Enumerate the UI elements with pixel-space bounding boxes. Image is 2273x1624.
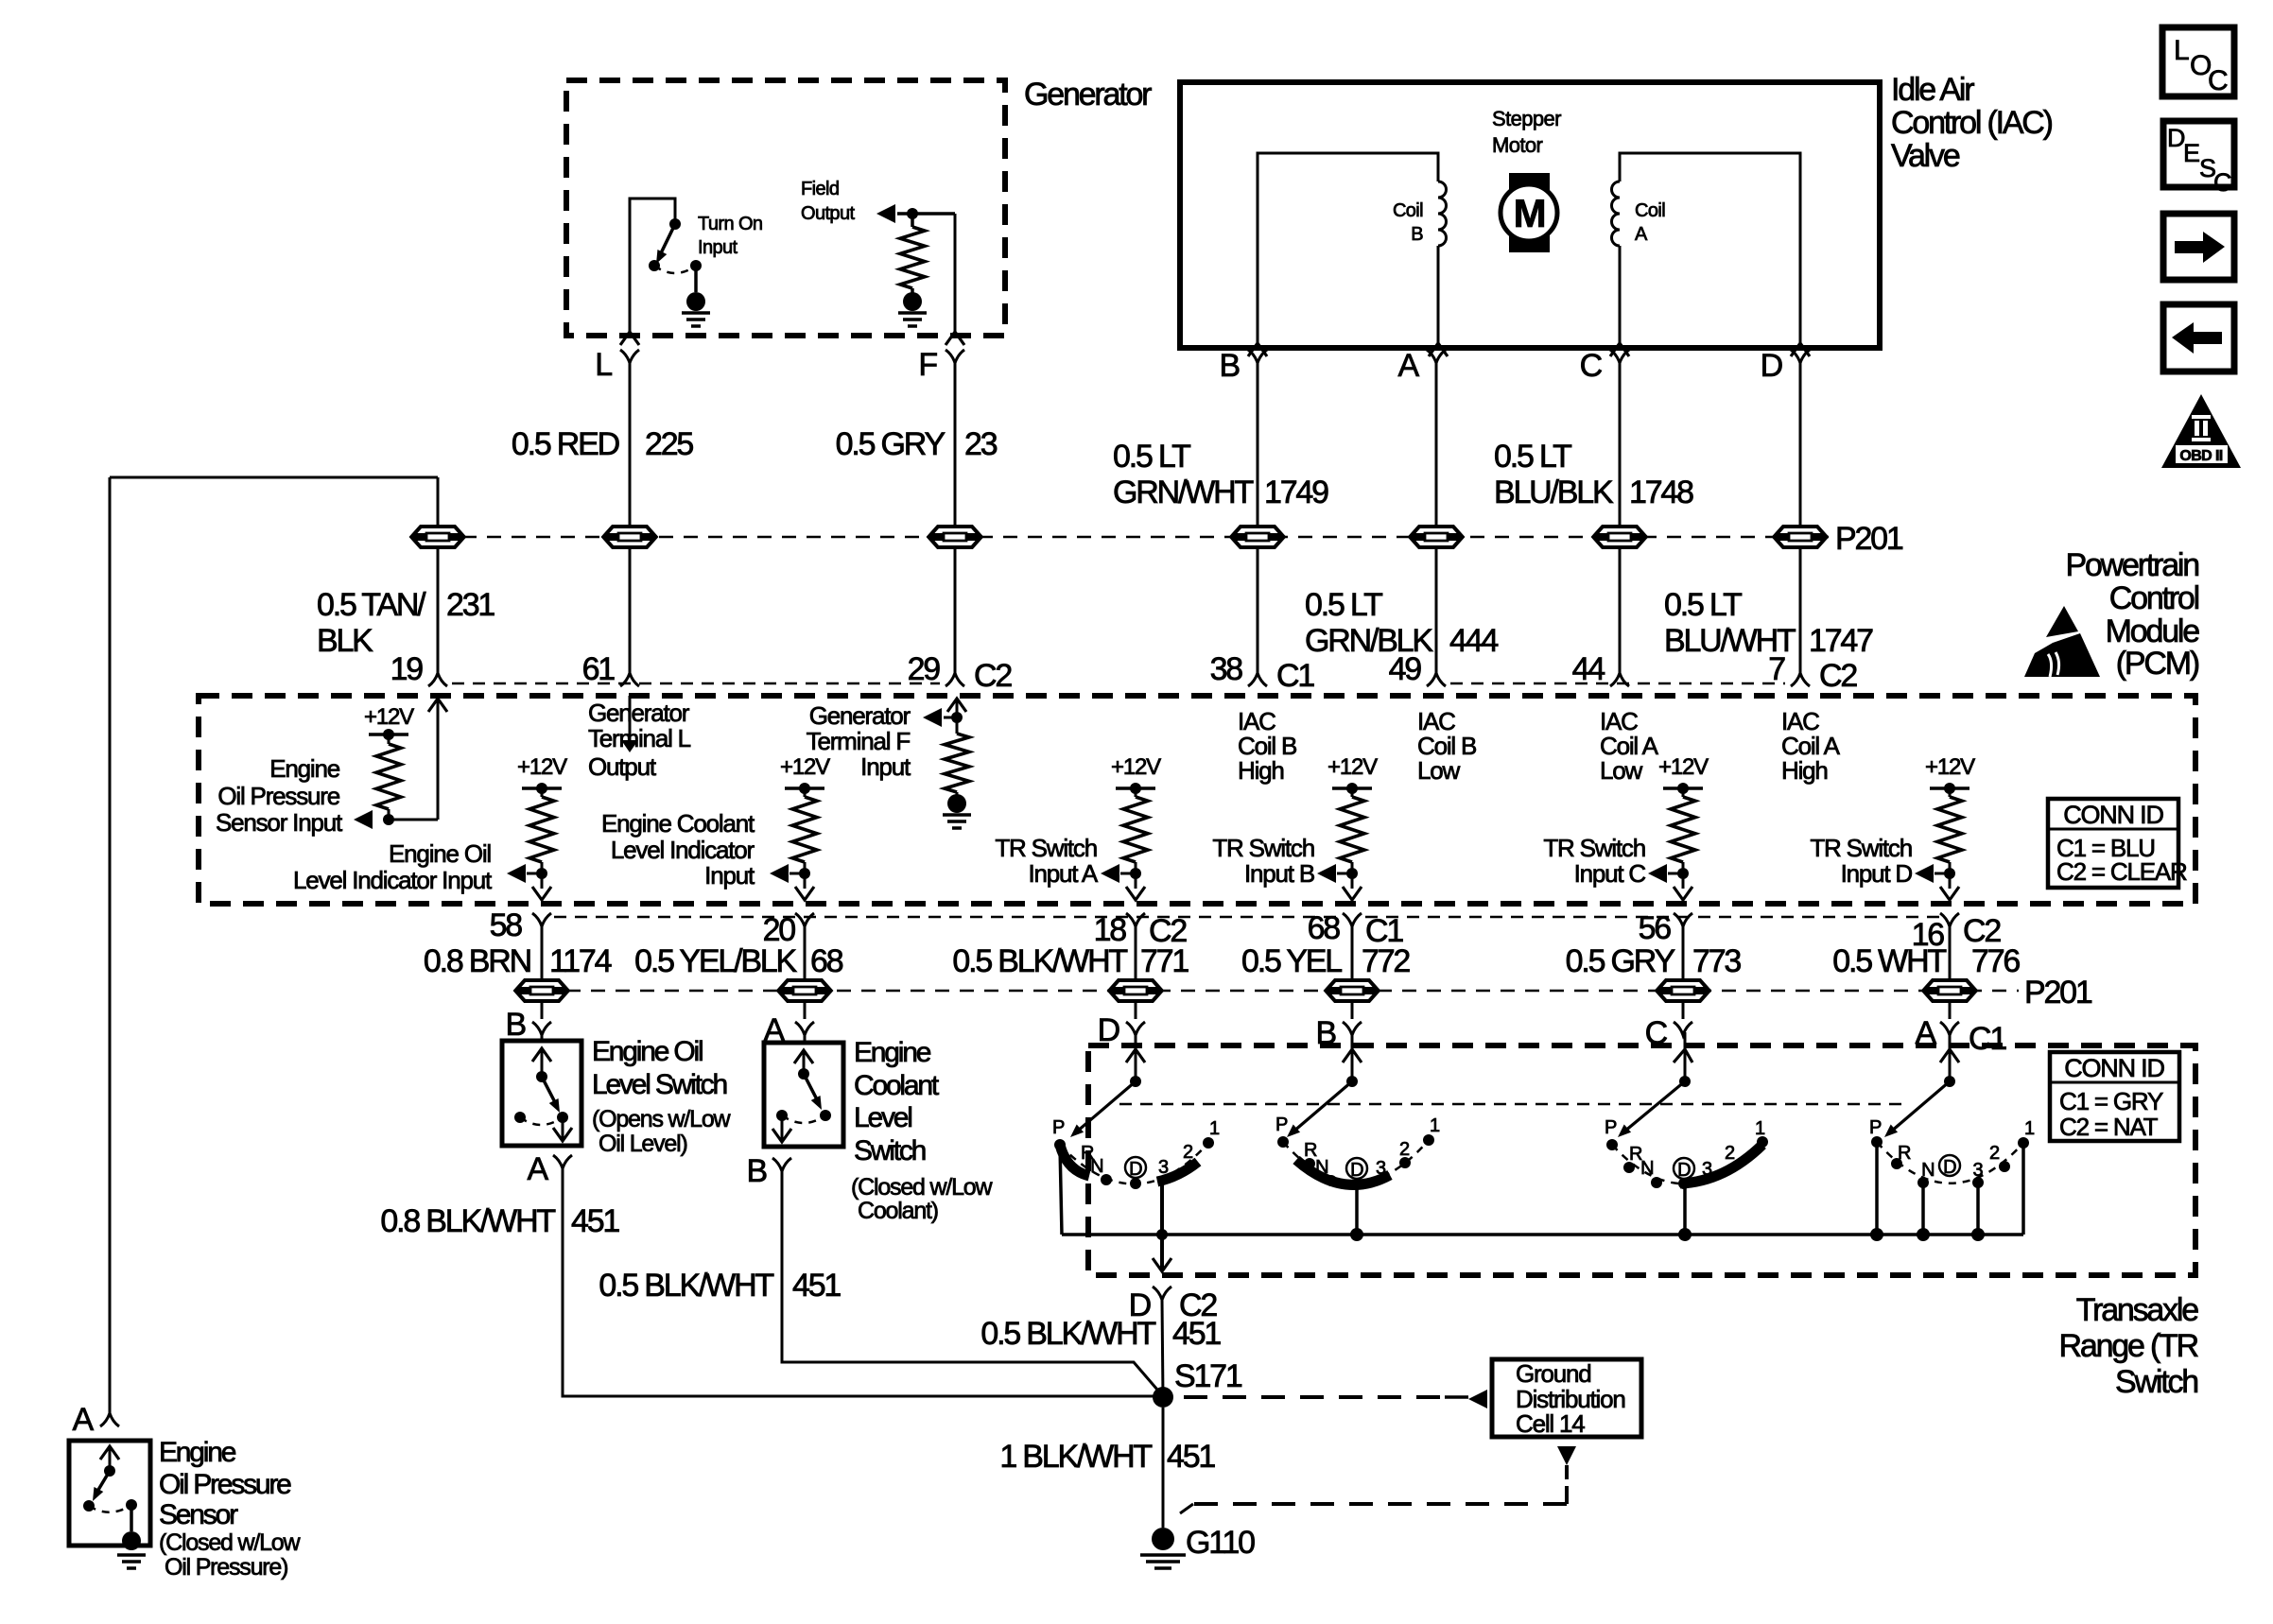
wire left loop horizontal (sensor feed) [110,476,438,479]
svg-text:2: 2 [1989,1143,2000,1164]
power +12V bar (Input B) [1332,783,1372,794]
svg-text:Module: Module [2106,613,2200,649]
label Generator Terminal F Input [807,701,911,781]
svg-text:Idle Air: Idle Air [1891,72,1974,108]
switch generator turn-on dashed travel arc [654,266,696,273]
terminal F of generator [918,347,964,383]
svg-text:Switch: Switch [2115,1364,2197,1400]
TR switch A contact 2 [1989,1143,2010,1172]
svg-text:D: D [1677,1160,1691,1181]
ground ball generator field [903,292,922,311]
arrow down to pin (Input) [795,873,814,900]
svg-text:Generator: Generator [809,701,911,730]
wire P201 lower to terminal at x=573 [541,1003,544,1019]
svg-text:19: 19 [390,651,424,687]
svg-text:Oil Pressure): Oil Pressure) [165,1554,287,1581]
svg-text:L: L [595,347,612,383]
TR switch D dashed contact arc [1060,1143,1208,1184]
svg-text:Output: Output [588,752,657,781]
TR switch C label 2 [1725,1143,1735,1164]
svg-text:29: 29 [908,651,941,687]
svg-text:1: 1 [1755,1118,1765,1139]
label Input C [1543,834,1645,888]
wire P201 to PCM pin at x=1713 [1619,549,1622,673]
switch oil pressure right contact [126,1499,137,1511]
wire PCM pin to P201 lower at x=2062 [1949,926,1952,979]
svg-text:38: 38 [1210,651,1243,687]
wire field output to F terminal [954,214,957,332]
svg-text:Oil Pressure: Oil Pressure [159,1469,291,1500]
svg-text:68: 68 [810,943,843,979]
label Engine Oil Pressure Sensor [159,1437,291,1530]
svg-text:P201: P201 [2024,975,2092,1011]
TR switch B contact P [1275,1114,1289,1148]
svg-text:1: 1 [1209,1118,1220,1139]
TR switch C output stub [1678,1183,1692,1241]
connector P201 pass-through (LT BLU/BLK) [1593,525,1646,549]
TR switch D contact D (circled) [1125,1157,1146,1189]
svg-text:A: A [1635,224,1648,245]
wire IAC coil-B loop [1258,153,1438,343]
TR switch A contact P [1869,1117,1883,1148]
dashed pin bar PCM bottom right [1365,916,1941,919]
connector P201 lower at x=851 [778,978,831,1003]
icon right-arrow box [2163,214,2234,280]
switch oil level right contact [557,1112,568,1123]
label Turn On Input [698,214,762,258]
wire 0.8 BLK/WHT 451 (oil switch to S171) [563,1168,1163,1396]
svg-text:Engine Coolant: Engine Coolant [601,809,755,838]
svg-text:Input A: Input A [1028,859,1098,888]
arrow down to pin (Input A) [1126,873,1145,900]
wire TR D output to S171 [1162,1300,1163,1397]
svg-text:1: 1 [1430,1115,1440,1136]
svg-text:Powertrain: Powertrain [2065,547,2198,583]
svg-text:CONN ID: CONN ID [2063,801,2163,829]
svg-text:P: P [1275,1114,1288,1135]
TR switch C contact N [1640,1158,1662,1188]
label Engine Coolant Level Switch [854,1037,940,1166]
arrow input (Input C) [1648,864,1683,883]
label Input B [1212,834,1314,888]
svg-text:TR Switch: TR Switch [1212,834,1314,862]
svg-text:Coolant: Coolant [854,1070,940,1101]
label 0.5 TAN/BLK 231 [317,587,495,659]
switch coolant arm [804,1074,822,1110]
node S171 splice [1153,1358,1242,1408]
wire PCM pin to P201 lower at x=1201 [1135,926,1137,979]
label 0.5 GRY 23 [836,426,998,462]
wire P201 lower to terminal at x=1780 [1682,1003,1685,1019]
ground symbol oil pressure sensor [117,1555,146,1568]
dashed reference to Ground Distribution [1184,1395,1468,1399]
TR switch A stub 3 [1971,1183,1985,1241]
svg-text:7: 7 [1768,651,1785,687]
svg-text:N: N [1090,1156,1103,1177]
TR switch C contact P [1605,1117,1618,1150]
svg-text:49: 49 [1389,651,1422,687]
node junction (Level Indicator Input) [536,868,547,879]
arrow Generator Terminal F Input [923,708,957,727]
terminal A of TR switch [1916,1015,2007,1057]
CONN ID table (PCM) [2048,799,2187,888]
svg-text:P: P [1605,1117,1617,1138]
switch generator turn-on arm [656,224,675,264]
label (Opens w/Low Oil Level) [592,1106,732,1157]
Engine Oil Pressure Sensor box [69,1441,150,1546]
svg-text:1 BLK/WHT: 1 BLK/WHT [999,1439,1152,1475]
wire into coolant switch [804,1035,807,1043]
svg-text:Generator: Generator [588,699,690,727]
wire P201 to PCM pin at x=1010 [954,549,957,673]
wire 0.5 LT GRN/BLK 444 upper (A to P201) [1435,363,1438,526]
resistor pull-up (Input D) [1937,788,1962,873]
svg-text:D: D [1129,1159,1142,1180]
svg-text:Input C: Input C [1574,859,1646,888]
Generator component dashed box [566,80,1005,336]
svg-text:0.5 YEL: 0.5 YEL [1241,943,1342,979]
node junction (Input D) [1944,868,1955,879]
wire P201 lower to terminal at x=1201 [1135,1003,1137,1019]
svg-text:Range (TR: Range (TR [2059,1328,2198,1364]
switch oil pressure dashed arc [89,1505,131,1512]
label (Closed w/Low Coolant) [851,1174,993,1224]
power +12V label (Input C) [1658,754,1709,780]
terminal D of TR switch [1098,1012,1145,1048]
TR switch B bold arc R-3 [1296,1160,1390,1184]
svg-text:23: 23 [964,426,998,462]
label 0.5 LT BLU/BLK 1748 [1494,439,1693,510]
arrow input (Level Indicator Input) [507,864,542,883]
svg-text:Field: Field [801,179,839,199]
dashed reference ground path [1180,1486,1567,1513]
svg-text:N: N [1640,1158,1654,1179]
power +12V label (Input) [780,754,830,780]
terminal A of IAC [1398,348,1446,384]
svg-text:P: P [1869,1117,1882,1138]
pin 18 of PCM (bottom) [1094,912,1188,949]
dashed pin bar PCM top right [1450,682,1785,685]
svg-text:1749: 1749 [1264,475,1328,510]
svg-text:0.5 BLK/WHT: 0.5 BLK/WHT [980,1316,1155,1352]
svg-text:Level Indicator Input: Level Indicator Input [293,866,493,894]
switch generator turn-on right contact [690,260,702,271]
TR switch ground bus [1062,1233,2023,1236]
icon DESC box [2163,121,2234,197]
label 0.5 BLK/WHT 771 [952,943,1189,979]
svg-text:2: 2 [1725,1143,1735,1164]
svg-text:+12V: +12V [364,704,414,730]
TR switch D output wire [1153,1181,1171,1271]
TR switch title [2059,1292,2199,1400]
icon LOC box [2162,27,2234,96]
node field output junction [907,208,918,219]
label 0.5 BLK/WHT 451 (coolant) [599,1268,841,1304]
svg-text:Low: Low [1600,756,1643,785]
TR switch input wire B [1287,1032,1362,1137]
svg-text:TR Switch: TR Switch [1810,834,1912,862]
wire 0.5 RED 225 (L to P201) [629,363,632,526]
svg-text:Engine Oil: Engine Oil [389,839,491,868]
switch coolant dashed arc [782,1115,825,1123]
TR switch C label R [1629,1144,1642,1165]
TR switch B dashed contact arc [1283,1140,1429,1183]
svg-text:P201: P201 [1835,521,1903,557]
TR switch A contact N [1917,1160,1935,1188]
label Engine Oil Pressure Sensor Input [216,754,343,837]
label 0.5 YEL/BLK 68 [634,943,843,979]
svg-text:M: M [1514,191,1545,235]
label 0.5 RED 225 [512,426,694,462]
svg-text:S171: S171 [1174,1358,1242,1394]
arrow down Generator Terminal L Output [621,696,638,752]
svg-text:Level: Level [854,1102,911,1133]
label Level Indicator Input [293,839,493,894]
wire turn-on contact to ground [694,266,698,292]
svg-text:(PCM): (PCM) [2116,646,2199,682]
svg-text:0.5 BLK/WHT: 0.5 BLK/WHT [599,1268,773,1304]
svg-text:B: B [747,1153,767,1189]
svg-text:(Closed w/Low: (Closed w/Low [159,1529,301,1556]
wire 0.5 LT BLU/BLK 1748 (C to P201) [1619,363,1622,526]
svg-text:Input: Input [704,861,755,890]
label (Closed w/Low Oil Pressure) [159,1529,301,1581]
node junction (Input) [799,868,810,879]
dashed pin bar PCM top left [452,682,940,685]
arrow coil-B high into bottom edge [1248,343,1267,356]
connector P201 pass-through (TAN/BLK) [411,525,464,549]
connector P201 lower at x=573 [515,978,568,1003]
dashed harness line P201 lower [542,990,2019,993]
terminal A (coolant switch) [764,1012,814,1048]
TR switch A stub 1 [2021,1143,2025,1235]
ground symbol terminal F [943,815,971,828]
svg-text:Control (IAC): Control (IAC) [1891,105,2053,141]
icon OBD II triangle [2161,394,2241,468]
CONN ID table (TR switch) [2050,1052,2179,1141]
wire P201 lower to terminal at x=1430 [1351,1003,1354,1019]
TR switch C bold arc D-1 [1680,1145,1762,1183]
svg-text:+12V: +12V [780,754,830,780]
svg-text:61: 61 [582,651,616,687]
svg-text:Input: Input [860,752,911,781]
svg-text:Oil Level): Oil Level) [599,1131,687,1157]
node junction terminal F input [951,712,963,723]
ground ball oil pressure sensor [122,1531,141,1550]
svg-text:Coil: Coil [1635,200,1665,221]
wire 0.5 BLK/WHT 451 (coolant switch to S171) [782,1171,1163,1396]
svg-text:451: 451 [1172,1316,1221,1352]
wire PCM pin to P201 lower at x=1430 [1351,926,1354,979]
TR switch C contact R [1623,1162,1635,1173]
svg-text:0.5 TAN/: 0.5 TAN/ [317,587,426,623]
node junction oil pressure input [383,814,394,825]
label IAC Coil A High [1781,707,1841,785]
svg-text:231: 231 [446,587,495,623]
resistor terminal F pulldown [945,717,969,795]
svg-text:0.5 LT: 0.5 LT [1113,439,1190,475]
connector P201 lower at x=1430 [1326,978,1379,1003]
arrow down from Ground Distribution [1557,1446,1576,1479]
TR switch A dashed contact arc [1877,1142,2023,1183]
pin 16 of PCM (bottom) [1912,913,2002,953]
svg-text:776: 776 [1971,943,2020,979]
svg-text:BLU/BLK: BLU/BLK [1494,475,1614,510]
Generator title label [1024,77,1152,112]
arrow Engine Oil Pressure Sensor Input [354,810,373,829]
svg-text:Input D: Input D [1841,859,1913,888]
svg-text:1: 1 [2024,1118,2035,1139]
svg-text:0.5 GRY: 0.5 GRY [1566,943,1675,979]
wire P201 to PCM pin at x=463 [437,549,440,673]
svg-text:Level Switch: Level Switch [592,1069,727,1100]
svg-text:G110: G110 [1186,1525,1255,1561]
TR switch A contact D (circled) [1939,1155,1960,1178]
svg-text:1748: 1748 [1629,475,1693,510]
pin 20 of PCM (bottom) [763,912,814,948]
stepper motor symbol [1501,173,1557,252]
connector P201 pass-through (LT GRN/BLK) [1410,525,1463,549]
svg-text:B: B [1220,348,1240,384]
svg-text:Engine: Engine [269,754,339,783]
svg-text:0.5 GRY: 0.5 GRY [836,426,946,462]
PCM title [2065,547,2199,682]
TR switch A contact R [1891,1143,1911,1169]
arrow up inside coolant switch [794,1050,813,1074]
svg-text:P: P [1052,1117,1065,1138]
wire PCM pin to P201 lower at x=573 [541,926,544,979]
svg-text:E: E [2183,139,2199,167]
svg-text:C: C [2208,65,2228,96]
svg-text:Turn On: Turn On [698,214,762,234]
label Coil A [1635,200,1665,245]
inductor Coil A [1612,181,1621,343]
power +12V bar (Input) [785,783,824,794]
svg-text:Engine Oil: Engine Oil [592,1036,703,1067]
ground ball generator switch [686,292,705,311]
wire P201 lower to terminal at x=851 [804,1003,807,1019]
resistor pull-up (Input) [792,788,817,873]
svg-text:TR Switch: TR Switch [1543,834,1645,862]
Idle Air Control (IAC) Valve box [1180,82,1880,348]
pin 38 of PCM (top) [1210,651,1315,694]
wire contact to ground (oil pressure) [130,1505,133,1531]
TR switch D bold arc 3-2 [1157,1162,1198,1182]
svg-text:Terminal F: Terminal F [807,727,911,755]
switch coolant: top contact [798,1068,809,1080]
label 0.8 BRN 1174 [424,943,612,979]
node junction (Input A) [1130,868,1141,879]
node junction (Input B) [1346,868,1358,879]
svg-text:Terminal L: Terminal L [588,724,691,752]
dashed harness line P201 upper [438,536,1830,539]
TR switch D contact 1 [1203,1118,1220,1149]
svg-text:451: 451 [571,1203,619,1239]
svg-text:High: High [1238,756,1284,785]
ESD sensitivity symbol [2024,606,2100,677]
svg-text:+12V: +12V [1925,754,1975,780]
TR switch input wire A [1884,1032,1959,1137]
svg-text:Oil Pressure: Oil Pressure [217,782,339,810]
svg-text:C2 = CLEAR: C2 = CLEAR [2056,857,2187,886]
svg-text:0.5 YEL/BLK: 0.5 YEL/BLK [634,943,797,979]
svg-text:773: 773 [1692,943,1741,979]
svg-text:C1 = GRY: C1 = GRY [2059,1087,2163,1115]
svg-text:N: N [1921,1160,1935,1181]
wire 0.5 TAN/BLK 231 upper segment [437,477,440,526]
svg-text:+12V: +12V [1111,754,1161,780]
TR switch D bold arc P-R [1060,1145,1089,1176]
svg-text:0.5 BLK/WHT: 0.5 BLK/WHT [952,943,1127,979]
svg-text:OBD II: OBD II [2179,448,2222,464]
pin 61 of PCM (top) [582,651,639,687]
TR switch input wire D [1070,1032,1145,1137]
svg-text:Input: Input [698,237,738,258]
connector P201 lower at x=2062 [1923,978,1976,1003]
svg-text:Switch: Switch [854,1135,926,1166]
arrow down to pin (Level Indicator Input) [532,873,551,900]
svg-text:444: 444 [1449,623,1498,659]
wire into oil level switch [541,1035,544,1041]
svg-text:Level Indicator: Level Indicator [611,836,755,864]
svg-text:B: B [1411,224,1423,245]
terminal B (oil level switch) [506,1007,551,1043]
dashed pin bar PCM bottom left [554,916,1339,919]
ground symbol generator switch [682,313,710,326]
Powertrain Control Module dashed box [199,696,2195,904]
resistor pull-up (Input B) [1340,788,1364,873]
arrow down out of oil level switch [553,1117,572,1141]
svg-text:0.5 WHT: 0.5 WHT [1832,943,1946,979]
TR switch B contact 1 [1423,1115,1440,1146]
svg-text:Stepper: Stepper [1492,107,1561,130]
switch oil level: top contact [536,1071,547,1082]
terminal B of coolant switch [747,1153,791,1189]
label Coil B [1393,200,1423,245]
power +12V label (Input D) [1925,754,1975,780]
label IAC Coil A Low [1600,707,1659,785]
Ground Distribution Cell 14 box [1492,1359,1641,1438]
power +12V bar (Input A) [1116,783,1155,794]
svg-text:2: 2 [1399,1139,1410,1160]
arrow input (Input D) [1915,864,1950,883]
svg-text:3: 3 [1972,1160,1983,1181]
svg-text:Transaxle: Transaxle [2076,1292,2199,1328]
svg-text:C2 = NAT: C2 = NAT [2059,1113,2159,1141]
arrow input (Input) [770,864,805,883]
svg-text:451: 451 [1167,1439,1215,1475]
resistor pull-up (Input C) [1671,788,1695,873]
TR switch A stub N [1917,1183,1930,1241]
svg-text:451: 451 [792,1268,841,1304]
wire pin19 junction to resistor [389,819,438,821]
switch generator turn-on: fixed contact [669,218,681,230]
wire P201 to PCM pin at x=1904 [1799,549,1802,673]
svg-text:44: 44 [1572,651,1605,687]
svg-text:High: High [1781,756,1828,785]
TR switch C label 3 [1702,1159,1712,1180]
svg-text:Coil: Coil [1393,200,1423,221]
arrow field output (left) [876,204,955,223]
terminal B of TR switch [1316,1015,1362,1051]
ground symbol generator field [898,313,927,326]
TR switch D label R [1081,1143,1094,1164]
power +12V label (Level Indicator Input) [517,754,567,780]
TR switch A contact 1 [2018,1118,2035,1149]
svg-text:225: 225 [645,426,693,462]
TR switch B contact D (circled) [1346,1158,1367,1181]
Engine Coolant Level Switch box [764,1043,843,1147]
